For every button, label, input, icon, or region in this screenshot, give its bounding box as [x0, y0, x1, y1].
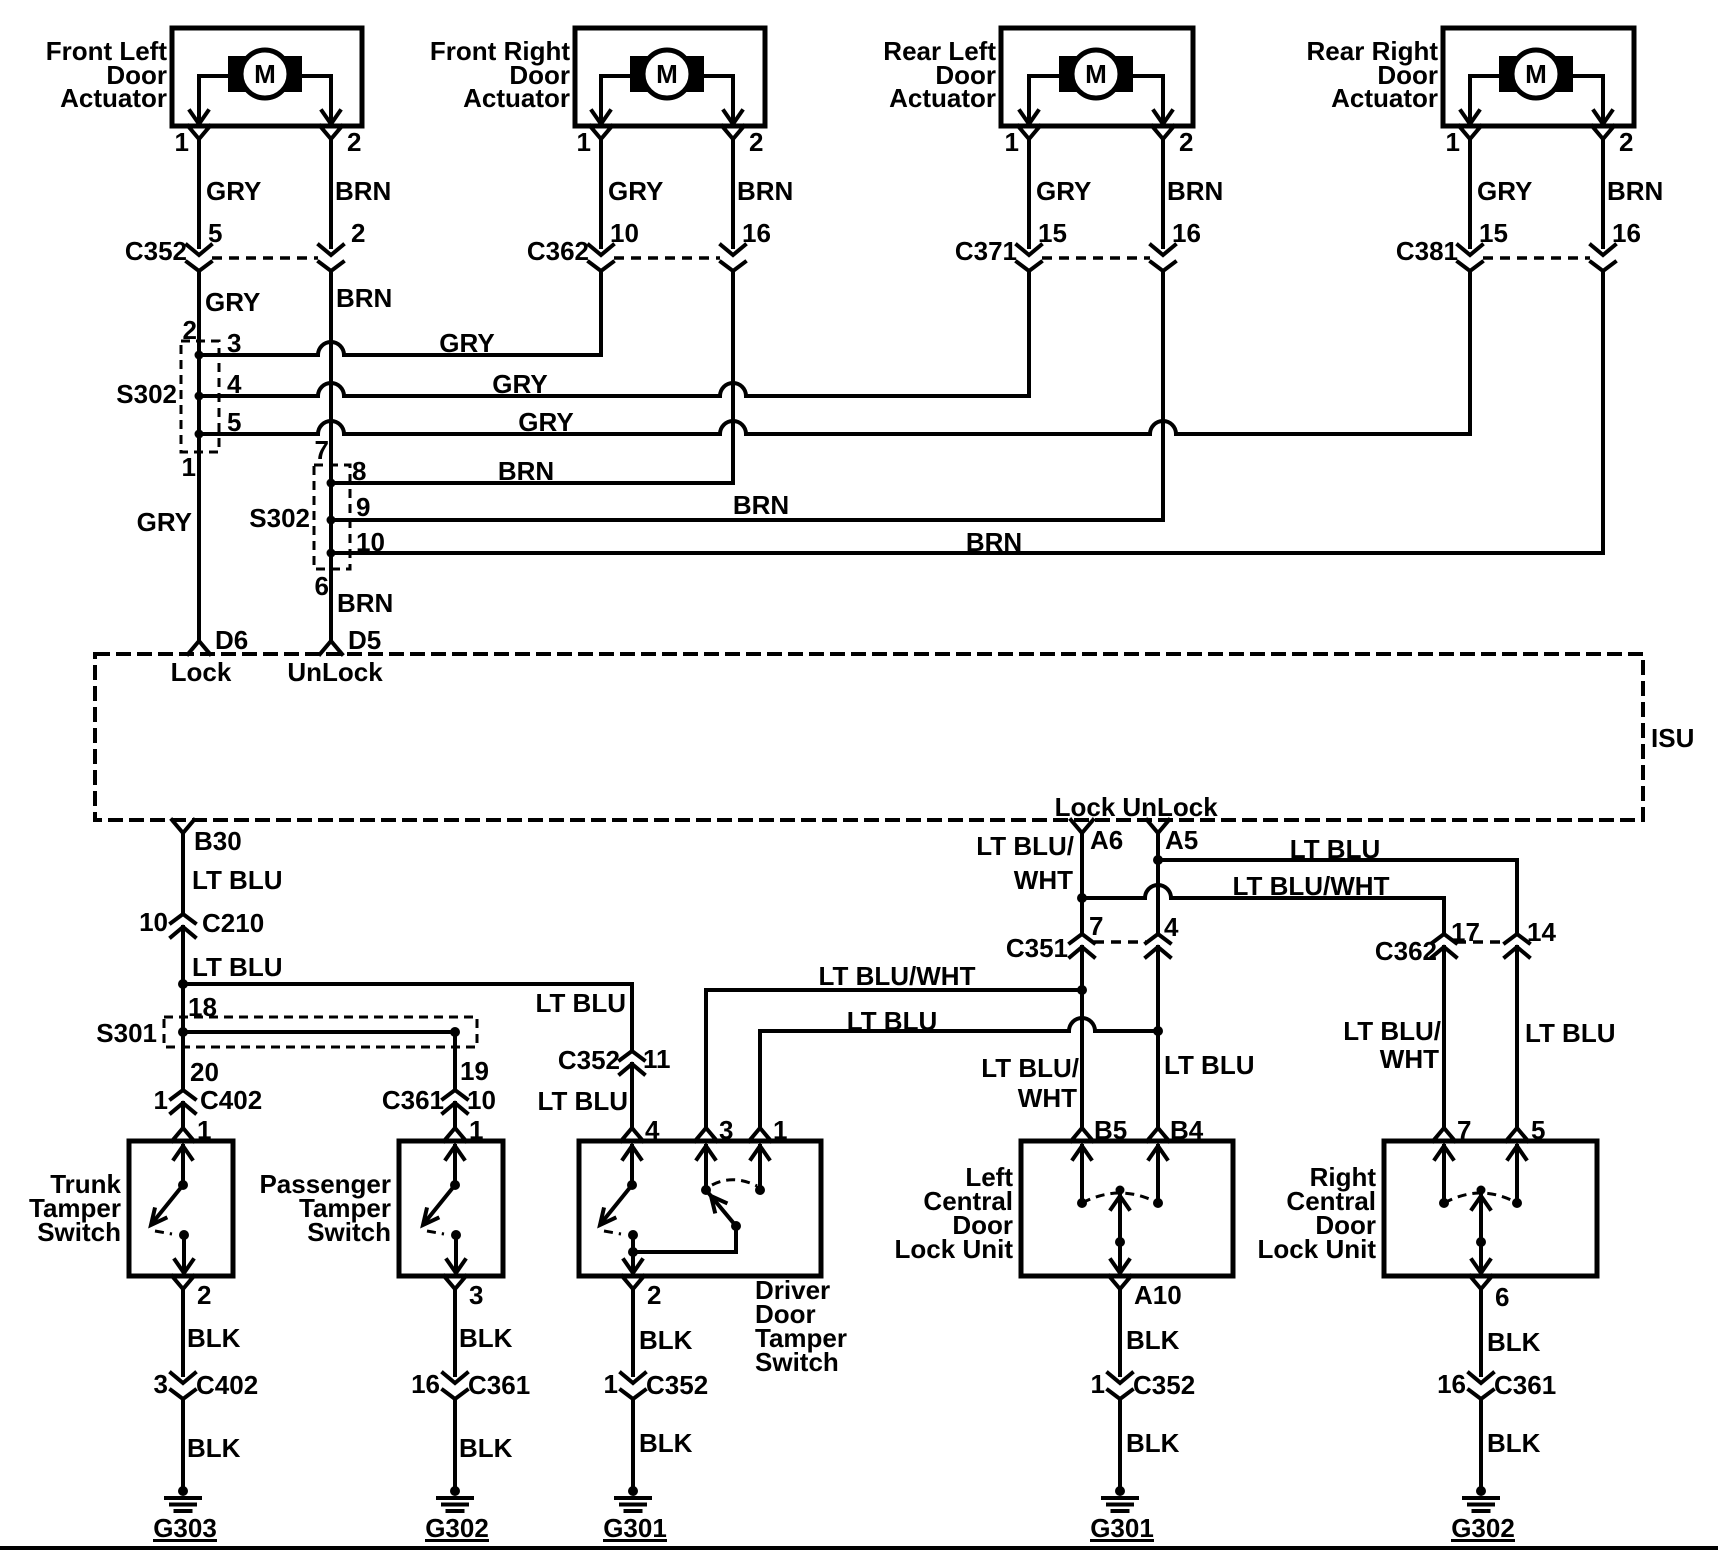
svg-text:S301: S301	[96, 1018, 157, 1048]
svg-text:C381: C381	[1396, 236, 1458, 266]
S301 pin 18 label	[188, 992, 217, 1022]
trunk pin 1	[172, 1115, 211, 1145]
Rear Right Door Actuator box	[1443, 28, 1634, 126]
svg-text:C361: C361	[382, 1085, 444, 1115]
driver pin 2	[622, 1276, 661, 1310]
wire into S301	[181, 984, 185, 1032]
svg-text:C371: C371	[955, 236, 1017, 266]
right unit pin 6	[1470, 1276, 1509, 1312]
svg-text:Actuator: Actuator	[1331, 83, 1438, 113]
junction S302 tap 3	[195, 328, 242, 360]
connector C351 pins 7/4	[1006, 911, 1179, 963]
label S301	[96, 1018, 157, 1048]
svg-text:BRN: BRN	[335, 176, 391, 206]
svg-text:C352: C352	[125, 236, 187, 266]
svg-text:LT BLU: LT BLU	[1164, 1050, 1255, 1080]
pin 1 Rear Left	[1005, 126, 1040, 157]
connector C361 pin 16 right unit	[1437, 1369, 1556, 1400]
wire C362-17 to right unit pin7	[1343, 947, 1444, 1128]
svg-text:7: 7	[1457, 1115, 1471, 1145]
wire BLK to G301 left unit	[1120, 1399, 1180, 1491]
junction S302 tap 4	[195, 369, 243, 401]
wire BRN tap9 to RL	[331, 490, 1163, 520]
svg-text:1: 1	[469, 1115, 483, 1145]
splice S302 BRN dashed box	[314, 465, 350, 569]
driver switch left contact	[600, 1146, 642, 1276]
wire BRN Rear Left pin2 to C371	[1163, 139, 1223, 247]
passenger pin 3	[444, 1276, 483, 1310]
svg-text:2: 2	[1179, 127, 1193, 157]
svg-text:2: 2	[197, 1280, 211, 1310]
svg-text:C402: C402	[196, 1370, 258, 1400]
svg-text:GRY: GRY	[608, 176, 663, 206]
junction S302 tap 10	[327, 527, 385, 558]
svg-text:2: 2	[351, 218, 365, 248]
svg-text:1: 1	[604, 1369, 618, 1399]
wire GRY RL C371 down	[1027, 271, 1031, 396]
svg-text:GRY: GRY	[205, 287, 260, 317]
ground G301 driver	[603, 1486, 667, 1543]
left unit pin B4	[1147, 1115, 1204, 1145]
svg-text:1: 1	[773, 1115, 787, 1145]
svg-text:A5: A5	[1165, 825, 1198, 855]
wire LT BLU B30 to C210	[183, 833, 283, 914]
svg-text:LT BLU/WHT: LT BLU/WHT	[1233, 871, 1390, 901]
label Right Central Door Lock Unit	[1258, 1162, 1377, 1264]
connector C210 pin 10	[139, 907, 264, 938]
svg-text:1: 1	[1446, 127, 1460, 157]
left unit actuator contacts	[1073, 1146, 1167, 1276]
svg-text:D6: D6	[215, 625, 248, 655]
wire GRY Front Right pin1 to C362	[601, 139, 663, 247]
S301 pin 19 label	[460, 1056, 489, 1086]
driver pin 3	[695, 1115, 733, 1145]
svg-text:LT BLU: LT BLU	[538, 1086, 629, 1116]
wire C361 to passenger switch	[453, 1103, 457, 1128]
svg-text:1: 1	[1005, 127, 1019, 157]
svg-text:7: 7	[1089, 911, 1103, 941]
label S302 BRN splice	[249, 503, 310, 533]
svg-text:16: 16	[1612, 218, 1641, 248]
connector C402 pin 1	[154, 1085, 263, 1115]
wire BLK trunk to C402	[183, 1289, 241, 1375]
connector C352 pin 1 left unit	[1091, 1369, 1196, 1400]
svg-text:C352: C352	[558, 1045, 620, 1075]
wire S301 to C402	[181, 1032, 185, 1090]
motor M Front Left	[228, 50, 302, 98]
svg-text:2: 2	[1619, 127, 1633, 157]
wire LT BLU A5 branch to C362-14	[1158, 834, 1517, 934]
svg-text:LT BLU/: LT BLU/	[1343, 1016, 1441, 1046]
bottom border line	[0, 1546, 1718, 1550]
svg-text:2: 2	[347, 127, 361, 157]
svg-text:16: 16	[742, 218, 771, 248]
svg-text:20: 20	[190, 1057, 219, 1087]
svg-text:C362: C362	[1375, 936, 1437, 966]
wire LT BLU/WHT driver pin3 to B5 node	[706, 961, 1081, 1128]
svg-text:BRN: BRN	[336, 283, 392, 313]
svg-text:G303: G303	[153, 1513, 217, 1543]
wire BRN FL C352 to S302 to D5	[331, 271, 393, 641]
wire GRY FR C362 down	[599, 271, 603, 355]
trunk pin 2	[172, 1276, 211, 1310]
svg-text:LT BLU/: LT BLU/	[976, 831, 1074, 861]
svg-text:GRY: GRY	[137, 507, 192, 537]
wire C351-7 to B5	[1080, 947, 1084, 1128]
wire GRY tap3 to FR	[199, 328, 601, 358]
motor M Rear Right	[1499, 50, 1573, 98]
svg-text:19: 19	[460, 1056, 489, 1086]
S301 pin 20 label	[190, 1057, 219, 1087]
svg-text:B4: B4	[1170, 1115, 1204, 1145]
svg-text:5: 5	[1531, 1115, 1545, 1145]
wire BLK C361 to G302	[455, 1399, 513, 1491]
wire S301 to C361	[453, 1032, 457, 1090]
pin 2 Front Right	[722, 126, 763, 157]
svg-text:B5: B5	[1094, 1115, 1127, 1145]
right unit pin 5	[1506, 1115, 1545, 1145]
wire LT BLU driver pin1 to B4 node	[760, 1006, 1158, 1128]
motor lead wires Rear Left	[1020, 76, 1172, 126]
svg-text:Lock Unit: Lock Unit	[895, 1234, 1014, 1264]
svg-text:1: 1	[175, 127, 189, 157]
svg-text:Switch: Switch	[37, 1217, 121, 1247]
right unit actuator contacts	[1435, 1146, 1526, 1276]
connector C361 pin 16	[411, 1369, 530, 1400]
svg-text:C351: C351	[1006, 933, 1068, 963]
junction B5 node	[1077, 985, 1087, 995]
left unit pin A10	[1109, 1276, 1182, 1310]
passenger switch contacts	[423, 1146, 465, 1276]
junction S302 tap 9	[327, 492, 371, 525]
pin D5 UnLock	[287, 625, 383, 687]
label ISU	[1651, 723, 1694, 753]
connector C352 pin 11	[558, 1044, 671, 1075]
svg-text:WHT: WHT	[1018, 1083, 1077, 1113]
svg-text:LT BLU: LT BLU	[1525, 1018, 1616, 1048]
svg-text:BLK: BLK	[639, 1428, 693, 1458]
wire BRN tap10 to RR	[331, 527, 1603, 557]
pin 1 Front Left	[175, 126, 210, 157]
svg-text:4: 4	[645, 1115, 660, 1145]
label Rear Left Door Actuator	[883, 36, 996, 113]
wire BLK C352 to G301	[633, 1399, 693, 1491]
svg-text:BLK: BLK	[459, 1433, 513, 1463]
svg-text:16: 16	[1437, 1369, 1466, 1399]
wire BRN Rear Right pin2 to C381	[1603, 139, 1663, 247]
wire GRY tap5 to RR	[199, 407, 1470, 437]
pin B30	[172, 820, 242, 856]
wire C351-4 to B4	[1158, 947, 1255, 1128]
junction S302 tap 5	[195, 407, 242, 439]
wire LT BLU C210 to junction	[183, 927, 283, 984]
svg-text:M: M	[1525, 59, 1547, 89]
pin 2 Rear Right	[1592, 126, 1633, 157]
svg-text:16: 16	[1172, 218, 1201, 248]
motor M Front Right	[630, 50, 704, 98]
Front Left Door Actuator box	[172, 28, 362, 126]
svg-text:GRY: GRY	[518, 407, 573, 437]
driver switch pin1 contact	[751, 1146, 769, 1195]
motor lead wires Rear Right	[1461, 76, 1612, 126]
S302 BRN pin 7 label	[315, 435, 329, 465]
svg-text:3: 3	[719, 1115, 733, 1145]
svg-text:ISU: ISU	[1651, 723, 1694, 753]
svg-text:GRY: GRY	[492, 369, 547, 399]
svg-text:WHT: WHT	[1014, 865, 1073, 895]
S302 BRN pin 6 label	[315, 571, 329, 601]
connector C362 pins 17/14	[1375, 917, 1557, 966]
svg-text:BRN: BRN	[1167, 176, 1223, 206]
svg-text:S302: S302	[249, 503, 310, 533]
wire BRN Front Left pin2 to C352	[331, 139, 391, 247]
driver switch junction	[628, 1247, 638, 1257]
wire BLK left unit to C352	[1120, 1289, 1180, 1375]
svg-text:LT BLU: LT BLU	[192, 952, 283, 982]
pin 1 Rear Right	[1446, 126, 1481, 157]
ground G302	[425, 1486, 489, 1543]
Rear Left Door Actuator box	[1001, 28, 1193, 126]
left unit pin B5	[1071, 1115, 1127, 1145]
motor lead wires Front Left	[190, 76, 340, 126]
svg-text:LT BLU/: LT BLU/	[981, 1053, 1079, 1083]
svg-text:BRN: BRN	[498, 456, 554, 486]
Driver Door Tamper Switch box	[579, 1141, 821, 1276]
svg-text:10: 10	[467, 1085, 496, 1115]
svg-text:11: 11	[643, 1044, 671, 1074]
driver switch right contact	[633, 1146, 741, 1252]
svg-text:1: 1	[577, 127, 591, 157]
motor lead wires Front Right	[592, 76, 742, 126]
svg-text:LT BLU: LT BLU	[847, 1006, 938, 1036]
svg-text:Lock: Lock	[1055, 792, 1116, 822]
ground G301 left unit	[1090, 1486, 1154, 1543]
svg-text:C352: C352	[1133, 1370, 1195, 1400]
connector C371 pins 15/16	[955, 218, 1201, 271]
svg-text:10: 10	[139, 907, 168, 937]
svg-text:BRN: BRN	[966, 527, 1022, 557]
svg-text:LT BLU/WHT: LT BLU/WHT	[819, 961, 976, 991]
svg-text:1: 1	[197, 1115, 211, 1145]
svg-text:BRN: BRN	[1607, 176, 1663, 206]
svg-text:S302: S302	[116, 379, 177, 409]
svg-text:Actuator: Actuator	[60, 83, 167, 113]
junction A6 branch	[1077, 893, 1087, 903]
wire BLK driver to C352	[633, 1289, 693, 1375]
svg-text:BLK: BLK	[187, 1323, 241, 1353]
pin D6 Lock	[171, 625, 249, 687]
junction B4 node	[1153, 1026, 1163, 1036]
wire BLK right unit to C361	[1481, 1289, 1541, 1375]
driver switch dashed throw arc	[712, 1180, 757, 1186]
svg-text:2: 2	[647, 1280, 661, 1310]
svg-text:B30: B30	[194, 826, 242, 856]
wire BRN FR C362 down	[731, 271, 735, 483]
wire GRY FL C352 to S302 to D6	[137, 271, 261, 641]
svg-text:M: M	[254, 59, 276, 89]
svg-text:BLK: BLK	[1126, 1325, 1180, 1355]
svg-text:15: 15	[1479, 218, 1508, 248]
wire GRY Rear Right pin1 to C381	[1470, 139, 1532, 247]
label Left Central Door Lock Unit	[895, 1162, 1014, 1264]
svg-text:LT BLU: LT BLU	[1290, 834, 1381, 864]
connector C402 pin 3	[154, 1369, 259, 1400]
ground G303	[153, 1486, 217, 1543]
svg-text:4: 4	[1164, 912, 1179, 942]
svg-text:9: 9	[356, 492, 370, 522]
svg-text:3: 3	[469, 1280, 483, 1310]
svg-text:1: 1	[1091, 1369, 1105, 1399]
svg-text:6: 6	[315, 571, 329, 601]
svg-text:BLK: BLK	[1126, 1428, 1180, 1458]
svg-text:10: 10	[610, 218, 639, 248]
wire BRN RR C381 down	[1601, 271, 1605, 553]
ISU box	[95, 654, 1643, 820]
svg-text:C402: C402	[200, 1085, 262, 1115]
connector C352 pin 1	[604, 1369, 709, 1400]
Trunk Tamper Switch box	[129, 1141, 233, 1276]
svg-text:C352: C352	[646, 1370, 708, 1400]
svg-text:M: M	[656, 59, 678, 89]
svg-text:GRY: GRY	[206, 176, 261, 206]
svg-text:GRY: GRY	[1036, 176, 1091, 206]
right unit pin 7	[1433, 1115, 1471, 1145]
svg-text:6: 6	[1495, 1282, 1509, 1312]
wire BRN RL C371 down	[1161, 271, 1165, 520]
wire LT BLU/WHT A6 branch to C362-17	[1082, 871, 1444, 934]
connector C362 pins 10/16	[527, 218, 771, 271]
connector C361 pin 10	[382, 1085, 496, 1115]
svg-text:G302: G302	[1451, 1513, 1515, 1543]
wire C402 to trunk switch	[181, 1103, 185, 1128]
label Trunk Tamper Switch	[29, 1169, 122, 1247]
svg-text:UnLock: UnLock	[287, 657, 383, 687]
Right Central Door Lock Unit box	[1384, 1141, 1597, 1276]
wire GRY Rear Left pin1 to C371	[1029, 139, 1091, 247]
svg-text:Lock: Lock	[171, 657, 232, 687]
label Passenger Tamper Switch	[259, 1169, 391, 1247]
wire BRN tap8 to FR	[331, 456, 733, 486]
driver pin 4	[621, 1115, 660, 1145]
svg-text:Actuator: Actuator	[463, 83, 570, 113]
svg-text:BRN: BRN	[337, 588, 393, 618]
svg-text:Lock Unit: Lock Unit	[1258, 1234, 1377, 1264]
trunk switch contacts	[151, 1146, 193, 1276]
wire C362-14 to right unit pin5	[1517, 947, 1616, 1128]
S302 GRY pin 1 label	[182, 452, 196, 482]
label LT BLU/WHT left unit	[981, 1053, 1079, 1113]
wire LT BLU A5 to C351-4	[1156, 833, 1160, 934]
label Front Right Door Actuator	[430, 36, 570, 113]
svg-text:C361: C361	[1494, 1370, 1556, 1400]
svg-text:1: 1	[154, 1085, 168, 1115]
svg-text:C210: C210	[202, 908, 264, 938]
svg-text:BLK: BLK	[1487, 1428, 1541, 1458]
svg-text:WHT: WHT	[1380, 1044, 1439, 1074]
svg-text:GRY: GRY	[439, 328, 494, 358]
wire LT BLU C352-11 to driver pin 4	[538, 1064, 633, 1128]
svg-text:GRY: GRY	[1477, 176, 1532, 206]
wire GRY RR C381 down	[1468, 271, 1472, 434]
pin A5 UnLock	[1122, 792, 1218, 855]
wire BLK to G302 right unit	[1481, 1399, 1541, 1491]
svg-text:D5: D5	[348, 625, 381, 655]
svg-text:14: 14	[1527, 917, 1556, 947]
driver pin 1	[749, 1115, 787, 1145]
pin 2 Rear Left	[1152, 126, 1193, 157]
splice S302 GRY dashed box	[181, 341, 219, 452]
svg-text:Actuator: Actuator	[889, 83, 996, 113]
wire LT BLU/WHT A6 to C351-7	[976, 831, 1082, 934]
svg-text:17: 17	[1451, 917, 1480, 947]
junction S301 right	[450, 1027, 460, 1037]
label Rear Right Door Actuator	[1307, 36, 1439, 113]
wire BRN Front Right pin2 to C362	[733, 139, 793, 247]
svg-text:C362: C362	[527, 236, 589, 266]
svg-text:3: 3	[154, 1369, 168, 1399]
wire GRY Front Left pin1 to C352	[199, 139, 261, 247]
wire BLK passenger to C361	[455, 1289, 513, 1375]
svg-text:BLK: BLK	[1487, 1327, 1541, 1357]
label Front Left Door Actuator	[46, 36, 168, 113]
passenger pin 1	[444, 1115, 483, 1145]
svg-text:16: 16	[411, 1369, 440, 1399]
svg-text:LT BLU: LT BLU	[536, 988, 627, 1018]
ground G302 right unit	[1451, 1486, 1515, 1543]
S302 GRY pin 2 label	[183, 315, 197, 345]
pin 1 Front Right	[577, 126, 612, 157]
svg-text:2: 2	[749, 127, 763, 157]
label Driver Door Tamper Switch	[755, 1275, 847, 1377]
svg-text:BRN: BRN	[737, 176, 793, 206]
splice S301 dashed box	[164, 1017, 477, 1047]
connector C381 pins 15/16	[1396, 218, 1641, 271]
svg-text:LT BLU: LT BLU	[192, 865, 283, 895]
svg-text:BLK: BLK	[639, 1325, 693, 1355]
junction S302 tap 8	[327, 456, 367, 488]
pin A6 Lock	[1055, 792, 1124, 855]
svg-text:UnLock: UnLock	[1122, 792, 1218, 822]
svg-text:BRN: BRN	[733, 490, 789, 520]
Left Central Door Lock Unit box	[1021, 1141, 1233, 1276]
motor M Rear Left	[1059, 50, 1133, 98]
svg-text:BLK: BLK	[187, 1433, 241, 1463]
junction S301 left	[178, 1027, 188, 1037]
pin 2 Front Left	[320, 126, 361, 157]
svg-text:2: 2	[183, 315, 197, 345]
svg-text:A10: A10	[1134, 1280, 1182, 1310]
Passenger Tamper Switch box	[399, 1141, 503, 1276]
junction A5 branch	[1153, 855, 1163, 865]
svg-text:G302: G302	[425, 1513, 489, 1543]
svg-text:5: 5	[208, 218, 222, 248]
label S302 GRY splice	[116, 379, 177, 409]
svg-text:BLK: BLK	[459, 1323, 513, 1353]
svg-text:7: 7	[315, 435, 329, 465]
svg-text:Switch: Switch	[307, 1217, 391, 1247]
svg-text:18: 18	[188, 992, 217, 1022]
svg-text:1: 1	[182, 452, 196, 482]
wire BLK C402 to G303	[183, 1399, 241, 1491]
svg-text:Switch: Switch	[755, 1347, 839, 1377]
junction LT BLU node	[178, 979, 188, 989]
wire LT BLU junction to C352-11	[183, 984, 632, 1051]
Front Right Door Actuator box	[575, 28, 765, 126]
svg-text:15: 15	[1038, 218, 1067, 248]
svg-text:G301: G301	[603, 1513, 667, 1543]
svg-text:M: M	[1085, 59, 1107, 89]
wire S301 crossover	[183, 1030, 455, 1034]
